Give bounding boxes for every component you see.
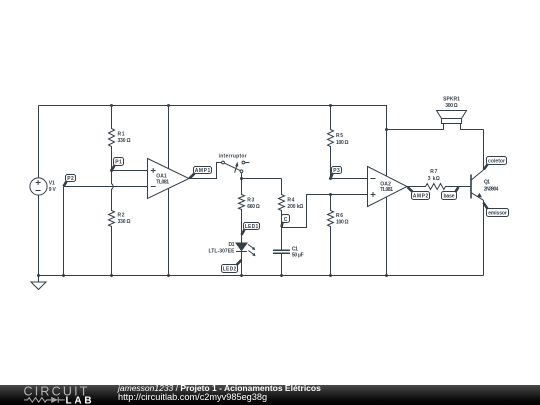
svg-text:P2: P2	[67, 176, 74, 182]
svg-text:LTL-307EE: LTL-307EE	[209, 248, 236, 254]
svg-text:330 Ω: 330 Ω	[118, 138, 131, 144]
svg-text:330 Ω: 330 Ω	[118, 219, 131, 225]
svg-text:base: base	[444, 193, 455, 199]
svg-text:3 kΩ: 3 kΩ	[428, 176, 440, 182]
svg-text:300 Ω: 300 Ω	[445, 103, 457, 109]
svg-text:100 Ω: 100 Ω	[336, 140, 349, 146]
svg-text:interruptor: interruptor	[219, 153, 247, 159]
svg-text:660 Ω: 660 Ω	[247, 204, 259, 210]
svg-text:LED1: LED1	[245, 224, 259, 230]
svg-text:2N3904: 2N3904	[484, 186, 499, 192]
svg-text:LAB: LAB	[66, 395, 95, 405]
svg-text:100 Ω: 100 Ω	[336, 220, 349, 226]
svg-text:C: C	[284, 217, 288, 223]
svg-text:50 µF: 50 µF	[292, 253, 304, 259]
svg-text:TL081: TL081	[380, 187, 393, 193]
svg-text:C1: C1	[292, 246, 298, 252]
svg-text:200 kΩ: 200 kΩ	[287, 204, 303, 210]
svg-text:R6: R6	[336, 213, 343, 219]
svg-text:SPKR1: SPKR1	[443, 96, 460, 102]
svg-text:AMP1: AMP1	[195, 168, 211, 174]
svg-text:R3: R3	[247, 198, 254, 204]
svg-text:R7: R7	[430, 169, 437, 175]
svg-text:V1: V1	[49, 181, 55, 187]
svg-text:D1: D1	[229, 242, 235, 248]
svg-text:R5: R5	[336, 133, 343, 139]
svg-text:TL081: TL081	[156, 179, 169, 185]
svg-text:R1: R1	[118, 131, 125, 137]
svg-text:Q1: Q1	[484, 180, 490, 186]
svg-text:AMP2: AMP2	[413, 193, 429, 199]
svg-text:LED2: LED2	[223, 267, 237, 273]
svg-text:R4: R4	[287, 198, 294, 204]
svg-text:coletor: coletor	[488, 159, 505, 165]
svg-text:9 V: 9 V	[49, 187, 57, 193]
svg-text:P3: P3	[333, 168, 340, 174]
svg-text:P1: P1	[115, 160, 122, 166]
svg-text:emissor: emissor	[488, 211, 507, 217]
svg-text:R2: R2	[118, 212, 125, 218]
